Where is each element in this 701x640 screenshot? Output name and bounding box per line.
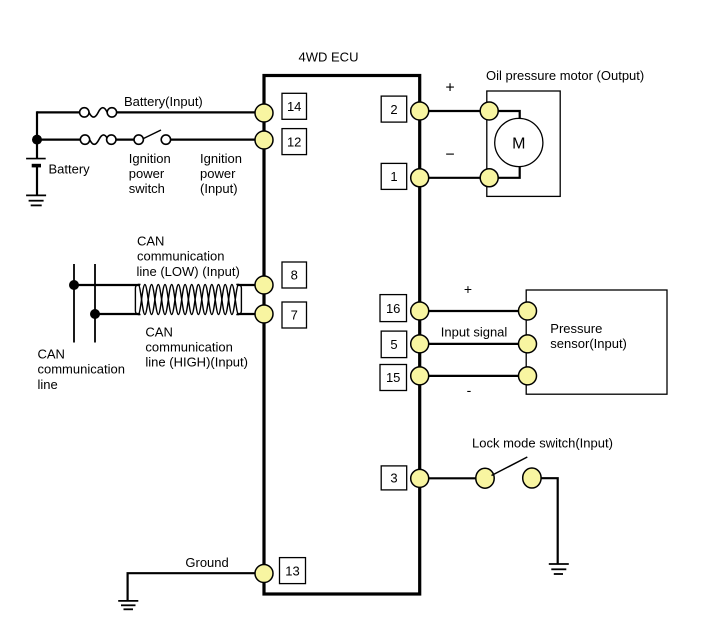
svg-text:CAN: CAN bbox=[145, 324, 172, 339]
svg-text:communication: communication bbox=[145, 340, 232, 355]
svg-text:4WD ECU: 4WD ECU bbox=[299, 50, 359, 65]
svg-text:2: 2 bbox=[390, 102, 397, 117]
svg-text:line: line bbox=[38, 377, 58, 392]
svg-text:15: 15 bbox=[386, 370, 400, 385]
svg-text:line (HIGH)(Input): line (HIGH)(Input) bbox=[145, 355, 248, 370]
svg-text:Battery(Input): Battery(Input) bbox=[124, 94, 203, 109]
svg-text:communication: communication bbox=[137, 249, 224, 264]
svg-text:power: power bbox=[200, 166, 236, 181]
svg-text:(Input): (Input) bbox=[200, 181, 238, 196]
svg-text:CAN: CAN bbox=[38, 347, 65, 362]
svg-text:1: 1 bbox=[390, 169, 397, 184]
svg-text:−: − bbox=[445, 147, 454, 164]
svg-text:+: + bbox=[445, 80, 454, 97]
svg-text:M: M bbox=[512, 135, 525, 152]
svg-text:sensor(Input): sensor(Input) bbox=[550, 336, 627, 351]
svg-text:communication: communication bbox=[38, 362, 125, 377]
svg-text:Battery: Battery bbox=[49, 161, 91, 176]
svg-text:13: 13 bbox=[285, 563, 299, 578]
svg-text:Ignition: Ignition bbox=[200, 151, 242, 166]
svg-text:14: 14 bbox=[287, 99, 301, 114]
svg-text:5: 5 bbox=[390, 337, 397, 352]
svg-text:line (LOW) (Input): line (LOW) (Input) bbox=[137, 264, 240, 279]
svg-text:8: 8 bbox=[291, 268, 298, 283]
svg-text:power: power bbox=[129, 166, 165, 181]
svg-text:+: + bbox=[464, 281, 472, 297]
svg-text:Input signal: Input signal bbox=[441, 325, 508, 340]
svg-text:-: - bbox=[467, 382, 472, 398]
svg-text:Pressure: Pressure bbox=[550, 321, 602, 336]
svg-text:16: 16 bbox=[386, 301, 400, 316]
svg-text:Lock mode switch(Input): Lock mode switch(Input) bbox=[472, 435, 613, 450]
svg-text:Ground: Ground bbox=[185, 555, 228, 570]
svg-text:CAN: CAN bbox=[137, 234, 164, 249]
svg-text:12: 12 bbox=[287, 134, 301, 149]
svg-text:3: 3 bbox=[390, 471, 397, 486]
svg-text:Oil pressure motor (Output): Oil pressure motor (Output) bbox=[486, 68, 644, 83]
svg-text:7: 7 bbox=[291, 308, 298, 323]
svg-text:Ignition: Ignition bbox=[129, 151, 171, 166]
svg-text:switch: switch bbox=[129, 181, 165, 196]
